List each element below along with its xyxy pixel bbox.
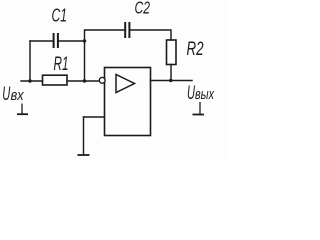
node junction dot left	[28, 79, 31, 82]
svg-text:C2: C2	[135, 0, 151, 17]
capacitor C2	[125, 22, 129, 38]
svg-text:R2: R2	[187, 39, 204, 60]
wire R2 bottom lead	[170, 65, 172, 81]
op-amp U1 body	[105, 68, 151, 136]
wire top corner up	[85, 30, 125, 41]
wire C1 right lead	[59, 40, 85, 42]
svg-text:вх: вх	[11, 88, 25, 104]
wire to op-amp inverting input	[85, 80, 100, 82]
resistor R2	[167, 40, 177, 65]
node junction dot inverting input	[83, 79, 86, 82]
wire node to inverting input vertical	[84, 41, 86, 81]
ground output terminal	[193, 102, 205, 115]
wire input rail	[21, 80, 43, 82]
node junction dot output	[169, 79, 172, 82]
wire non-inverting input	[84, 116, 105, 118]
resistor R1	[43, 75, 68, 85]
wire R1 output	[67, 80, 85, 82]
capacitor C1	[54, 33, 58, 48]
svg-text:вых: вых	[195, 87, 215, 103]
wire ground lead of non-inverting input	[83, 117, 85, 155]
ground op-amp non-inverting	[78, 154, 90, 156]
wire C1 left lead	[30, 40, 53, 42]
svg-text:U: U	[2, 83, 11, 105]
op-amp U1 triangle	[116, 75, 135, 93]
ground input terminal	[17, 104, 28, 115]
svg-text:C1: C1	[52, 6, 68, 26]
node junction dot C1 right	[83, 39, 86, 42]
op-amp U1 inversion circle	[99, 77, 105, 83]
wire C1 branch vertical	[29, 41, 31, 81]
wire op-amp output rail	[151, 80, 193, 82]
wire C2 right lead to R2 top	[130, 30, 171, 40]
svg-text:R1: R1	[54, 54, 69, 75]
